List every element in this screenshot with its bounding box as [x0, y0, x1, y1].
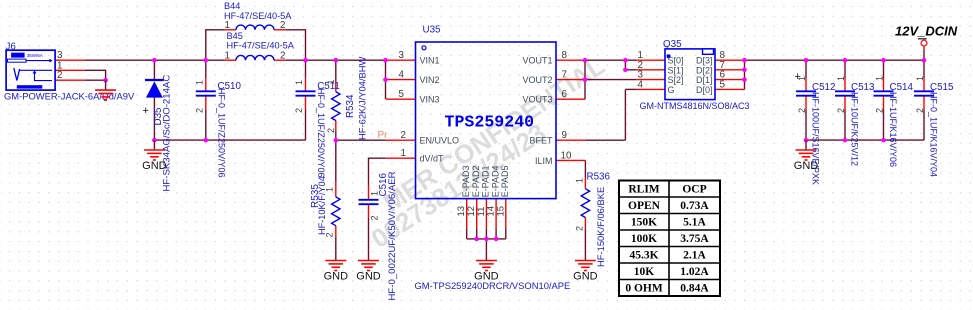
- svg-text:EN/UVLO: EN/UVLO: [420, 136, 460, 146]
- svg-text:OCP: OCP: [682, 184, 706, 196]
- capacitor C510: [195, 80, 242, 178]
- wire C511 column: [305, 60, 307, 140]
- svg-text:1: 1: [225, 50, 230, 61]
- wire C510 column: [205, 60, 207, 140]
- wire E-PAD stubs: [467, 199, 506, 251]
- svg-text:6: 6: [562, 89, 568, 100]
- svg-text:U35: U35: [423, 25, 442, 36]
- ground R535: [324, 251, 349, 283]
- svg-text:2: 2: [915, 108, 925, 113]
- svg-text:ILIM: ILIM: [535, 156, 553, 166]
- wire J6 pin3 stub: [56, 59, 85, 61]
- wire J6 pin2: [56, 79, 106, 81]
- wire EN/UVLO net Pr: [336, 139, 416, 141]
- svg-text:S[2]: S[2]: [668, 75, 684, 85]
- svg-text:Q35: Q35: [663, 39, 682, 50]
- ground C512: [794, 140, 819, 172]
- svg-text:D[1]: D[1]: [696, 75, 713, 85]
- svg-text:10: 10: [561, 150, 572, 161]
- svg-text:GM-POWER-JACK-6A/Dd/A9V: GM-POWER-JACK-6A/Dd/A9V: [4, 90, 135, 101]
- fuse B44 pins: [225, 29, 285, 31]
- svg-text:7: 7: [562, 70, 567, 81]
- svg-text:150K: 150K: [631, 217, 657, 229]
- svg-text:1: 1: [294, 80, 304, 85]
- wire J6 pin1: [56, 70, 106, 80]
- svg-text:HF-1UF/K16V/Y06: HF-1UF/K16V/Y06: [888, 92, 898, 167]
- svg-text:B45: B45: [227, 31, 243, 41]
- svg-text:2: 2: [280, 50, 285, 61]
- wire dV/dT to C516: [369, 158, 416, 250]
- wire D35 column: [153, 60, 155, 140]
- svg-text:dV/dT: dV/dT: [420, 154, 445, 164]
- svg-text:J6: J6: [6, 41, 17, 52]
- svg-text:1: 1: [195, 80, 205, 85]
- capacitor C512: [795, 71, 836, 185]
- svg-text:S[0]: S[0]: [668, 56, 684, 66]
- svg-text:BFET: BFET: [529, 136, 553, 146]
- svg-text:4: 4: [399, 70, 405, 81]
- svg-text:2: 2: [875, 108, 885, 113]
- resistor R535: [310, 176, 340, 237]
- svg-text:HF-SK34AG/Sc/DO-214AC: HF-SK34AG/Sc/DO-214AC: [162, 75, 173, 192]
- svg-text:0.73A: 0.73A: [680, 200, 709, 212]
- svg-text:4: 4: [638, 79, 644, 90]
- svg-text:E-PAD2: E-PAD2: [471, 165, 481, 197]
- svg-text:D[3]: D[3]: [696, 56, 713, 66]
- svg-text:1: 1: [326, 79, 336, 84]
- svg-text:GM-NTMS4816N/SO8/AC3: GM-NTMS4816N/SO8/AC3: [640, 101, 750, 111]
- svg-text:2: 2: [326, 128, 336, 133]
- svg-text:1: 1: [225, 20, 230, 31]
- svg-text:R536: R536: [587, 171, 611, 182]
- svg-text:HF-150K/F/06/BKE: HF-150K/F/06/BKE: [595, 187, 606, 267]
- port 12V_DCIN: [895, 24, 958, 46]
- svg-text:1.02A: 1.02A: [680, 266, 709, 278]
- svg-text:2: 2: [401, 130, 406, 141]
- svg-text:VOUT1: VOUT1: [522, 56, 552, 66]
- wire main input rail: [85, 59, 386, 61]
- svg-text:HF-0_0022UF/K50V/Y06/AER: HF-0_0022UF/K50V/Y06/AER: [387, 171, 398, 300]
- svg-text:2: 2: [280, 20, 285, 31]
- svg-text:3.75A: 3.75A: [680, 233, 709, 245]
- svg-text:100K: 100K: [631, 233, 657, 245]
- svg-text:1: 1: [370, 191, 380, 196]
- svg-text:5.1A: 5.1A: [683, 217, 706, 229]
- svg-text:E-PAD5: E-PAD5: [500, 165, 510, 197]
- svg-text:0 OHM: 0 OHM: [625, 283, 663, 295]
- svg-text:HF-0_1UF/K16V/Y04: HF-0_1UF/K16V/Y04: [929, 92, 939, 177]
- resistor R534: [326, 56, 368, 140]
- svg-text:HF-10K/F/Y04: HF-10K/F/Y04: [317, 176, 327, 235]
- svg-text:GND: GND: [356, 270, 381, 282]
- op-amp U35 (TPS259240 efuse): [399, 25, 572, 292]
- svg-text:2: 2: [325, 232, 335, 237]
- wire R534 column: [335, 60, 337, 140]
- svg-text:VIN3: VIN3: [420, 95, 440, 105]
- wire output cap columns: [806, 60, 924, 140]
- capacitor C514: [874, 76, 914, 167]
- svg-text:GND: GND: [794, 160, 819, 172]
- svg-text:8: 8: [562, 50, 568, 61]
- svg-text:2: 2: [575, 226, 585, 231]
- capacitor C515: [914, 76, 954, 177]
- fuse B45: [225, 31, 295, 62]
- svg-text:GND: GND: [324, 270, 349, 282]
- wire VOUT tie: [556, 60, 585, 99]
- svg-text:1: 1: [575, 178, 585, 183]
- capacitor C513: [835, 76, 875, 166]
- svg-text:S[1]: S[1]: [668, 65, 684, 75]
- svg-text:VOUT3: VOUT3: [522, 95, 552, 105]
- svg-text:1: 1: [797, 76, 807, 81]
- svg-text:1: 1: [875, 76, 885, 81]
- svg-text:G: G: [668, 85, 675, 95]
- svg-text:Pr: Pr: [378, 130, 389, 141]
- capacitor C511: [294, 80, 340, 178]
- svg-text:10K: 10K: [634, 266, 655, 278]
- ground R536: [573, 251, 598, 283]
- svg-text:2: 2: [294, 108, 304, 113]
- watermark: [366, 50, 610, 254]
- svg-text:2: 2: [370, 215, 380, 220]
- ground E-PAD: [474, 251, 499, 283]
- svg-text:D[2]: D[2]: [696, 65, 713, 75]
- wire B44 branch: [206, 30, 306, 60]
- svg-text:HF-10UF/K25V/12: HF-10UF/K25V/12: [850, 92, 860, 166]
- svg-text:RLIM: RLIM: [628, 184, 659, 196]
- svg-text:HF-62K/J/Y04/BHW: HF-62K/J/Y04/BHW: [357, 56, 368, 140]
- transistor Q35: [638, 39, 750, 111]
- svg-text:0.84A: 0.84A: [680, 283, 709, 295]
- wire Q35 drain tie and output rail: [715, 60, 924, 89]
- svg-text:2: 2: [57, 70, 62, 81]
- wire ILIM to R536: [556, 160, 585, 250]
- svg-text:2.1A: 2.1A: [683, 250, 706, 262]
- svg-text:GND: GND: [573, 270, 598, 282]
- wire ground rail left: [154, 139, 305, 141]
- svg-text:OPEN: OPEN: [628, 200, 661, 212]
- capacitor C516: [359, 171, 399, 300]
- svg-text:B44: B44: [224, 1, 240, 11]
- wire BFET to Q35 gate: [556, 89, 665, 140]
- svg-text:VIN1: VIN1: [420, 56, 440, 66]
- svg-text:TPS259240: TPS259240: [445, 112, 535, 131]
- svg-text:E-PAD1: E-PAD1: [481, 165, 491, 197]
- svg-text:1: 1: [325, 187, 335, 192]
- svg-text:15: 15: [495, 206, 506, 217]
- svg-text:GND: GND: [142, 160, 167, 172]
- fuse B44: [224, 1, 292, 31]
- wire 12V_DCIN port drop: [923, 46, 925, 60]
- svg-text:VOUT2: VOUT2: [522, 75, 552, 85]
- svg-text:GND: GND: [474, 270, 499, 282]
- ground D35: [142, 140, 167, 172]
- svg-text:D[0]: D[0]: [696, 85, 713, 95]
- svg-text:45.3K: 45.3K: [629, 250, 658, 262]
- svg-text:35W/6A: 35W/6A: [27, 53, 43, 58]
- wire ground rail right: [806, 139, 924, 141]
- svg-text:HF-0_1UF/Z250V/Y06: HF-0_1UF/Z250V/Y06: [217, 88, 227, 178]
- table RLIM/OCP: [619, 181, 720, 297]
- svg-text:2: 2: [797, 108, 807, 113]
- ground J6: [95, 80, 116, 100]
- svg-text:+: +: [143, 105, 149, 117]
- svg-text:12V_DCIN: 12V_DCIN: [895, 24, 958, 39]
- wire VOUT to Q35 sources: [585, 60, 665, 79]
- svg-text:1: 1: [836, 76, 846, 81]
- svg-text:2: 2: [836, 108, 846, 113]
- svg-text:E-PAD3: E-PAD3: [461, 165, 471, 197]
- svg-text:E-PAD4: E-PAD4: [490, 165, 500, 197]
- diode D35: [143, 75, 173, 192]
- wire R535 column: [335, 140, 337, 250]
- svg-text:VIN2: VIN2: [420, 75, 440, 85]
- svg-text:2: 2: [195, 108, 205, 113]
- svg-text:1: 1: [915, 76, 925, 81]
- wire VIN tie vertical: [386, 60, 416, 99]
- svg-text:R534: R534: [345, 94, 356, 118]
- svg-text:5: 5: [720, 79, 726, 90]
- resistor R536: [575, 171, 611, 267]
- svg-text:3: 3: [399, 50, 405, 61]
- svg-text:9: 9: [562, 130, 567, 141]
- fuse B45 pins: [225, 59, 285, 61]
- svg-text:5: 5: [399, 89, 405, 100]
- connector J6: [4, 41, 135, 101]
- ground C516: [356, 251, 381, 283]
- svg-text:HF-0_1UF/Z250V/Y06: HF-0_1UF/Z250V/Y06: [316, 88, 326, 178]
- svg-text:1: 1: [401, 148, 406, 159]
- svg-text:HF-47/SE/40-5A: HF-47/SE/40-5A: [227, 41, 295, 51]
